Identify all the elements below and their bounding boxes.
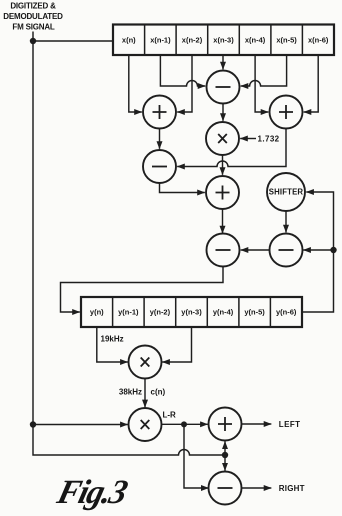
wire: x(n-5) tap to top subtractor with hop xyxy=(241,55,287,86)
wire: y(n) tap down to 19kHz multiplier xyxy=(97,327,128,362)
svg-text:y(n-4): y(n-4) xyxy=(213,308,234,317)
wire: left subtractor output to middle adder xyxy=(160,183,205,193)
wire: L+R up into output adder xyxy=(224,442,226,456)
wire: x(n-3) tap to top subtractor xyxy=(222,55,224,69)
node: FM input junction xyxy=(30,38,36,44)
adder U12: output adder (plus) xyxy=(209,408,242,441)
node: feedback junction on right bus xyxy=(330,247,336,253)
wire: top subtractor output to multiplier xyxy=(222,104,224,121)
subtractor U8: middle subtractor (minus) xyxy=(207,234,240,267)
adder U6: middle adder (plus) xyxy=(206,176,239,209)
svg-text:38kHz: 38kHz xyxy=(119,387,142,396)
wire: shifter output down to right subtractor xyxy=(285,211,287,232)
wire: FM bus into L-R multiplier xyxy=(33,424,128,426)
wire: RIGHT output xyxy=(242,487,272,489)
svg-text:19kHz: 19kHz xyxy=(101,334,124,343)
wire: FM signal left bus down to bottom with hop over L-R branch xyxy=(33,41,225,455)
svg-text:x(n-2): x(n-2) xyxy=(182,36,203,45)
svg-text:y(n-1): y(n-1) xyxy=(118,308,139,317)
wire: coefficient 1.732 into multiplier xyxy=(240,138,256,140)
register: x(n) shift register box xyxy=(113,25,334,56)
svg-text:x(n-3): x(n-3) xyxy=(213,36,234,45)
svg-text:y(n-5): y(n-5) xyxy=(244,308,265,317)
svg-text:1.732: 1.732 xyxy=(258,134,280,143)
wire: L-R branch down to output subtractor xyxy=(184,424,209,488)
register: y(n) shift register box xyxy=(81,297,302,327)
wire: left adder output down to left subtractor xyxy=(159,129,161,149)
svg-text:L-R: L-R xyxy=(163,411,177,420)
wire: x(n-6) tap to right adder xyxy=(304,55,319,112)
wire: y-register feedback loop up right side to shifter xyxy=(302,192,334,312)
svg-text:SHIFTER: SHIFTER xyxy=(269,188,304,197)
wire: 38kHz carrier c(n) down to L-R multiplier xyxy=(144,379,146,408)
wire: middle subtractor output to y-register input xyxy=(61,267,224,313)
svg-text:x(n-4): x(n-4) xyxy=(245,36,266,45)
label: DIGITIZED & DEMODULATED FM SIGNAL xyxy=(3,2,63,32)
x-register cell dividers xyxy=(145,25,303,56)
svg-text:y(n): y(n) xyxy=(90,308,104,317)
node: L+R junction between output adder and subtractor xyxy=(222,452,228,458)
adder U1: top subtractor (minus) xyxy=(207,71,240,104)
svg-text:y(n-6): y(n-6) xyxy=(276,308,297,317)
wire: right subtractor output to middle subtractor xyxy=(241,249,270,251)
wire: FM signal stub from label xyxy=(32,32,34,42)
subtractor U13: output subtractor (minus) xyxy=(209,472,242,505)
wire: x(n-2) tap to left adder xyxy=(177,55,192,112)
svg-text:c(n): c(n) xyxy=(151,387,166,396)
wire: right bus branch into right subtractor xyxy=(303,249,333,251)
wire: L+R down into output subtractor xyxy=(224,455,226,471)
svg-text:LEFT: LEFT xyxy=(279,420,301,429)
multiplier U11: L-R demodulator xyxy=(129,408,162,441)
subtractor U9: right subtractor (minus) xyxy=(270,234,303,267)
wire: right adder output to left subtractor with hop over multiplier output xyxy=(177,129,286,167)
svg-text:x(n-6): x(n-6) xyxy=(308,36,329,45)
svg-text:y(n-3): y(n-3) xyxy=(181,308,202,317)
wire: multiplier output down to middle adder xyxy=(222,155,224,175)
wire: middle adder output down to middle subtractor xyxy=(222,209,224,233)
svg-text:FM SIGNAL: FM SIGNAL xyxy=(12,23,55,32)
wire: L-R signal to output adder xyxy=(162,423,208,425)
wire: x(n-1) tap to top subtractor with hop xyxy=(160,55,205,86)
wire: x(n) tap to left adder xyxy=(129,55,142,112)
wire: FM junction to x-register input xyxy=(33,40,113,42)
wire: y(n-3) tap down to 19kHz multiplier xyxy=(162,327,191,362)
wire: x(n-4) tap to right adder xyxy=(255,55,268,112)
wire: LEFT output xyxy=(242,423,272,425)
shifter U7 xyxy=(267,173,305,211)
node: L-R junction xyxy=(181,421,187,427)
svg-text:x(n-1): x(n-1) xyxy=(150,36,171,45)
adder U3: right adder (plus) xyxy=(270,96,303,129)
svg-text:x(n): x(n) xyxy=(122,36,136,45)
adder U2: left adder (plus) xyxy=(143,96,176,129)
svg-text:DEMODULATED: DEMODULATED xyxy=(3,12,63,21)
svg-text:y(n-2): y(n-2) xyxy=(150,308,171,317)
svg-text:x(n-5): x(n-5) xyxy=(276,36,297,45)
figure caption Fig.3 xyxy=(53,473,132,510)
multiplier U4: x 1.732 xyxy=(206,122,239,155)
node: FM bus junction at L-R multiplier xyxy=(30,421,36,427)
y-register cell dividers xyxy=(113,297,271,327)
subtractor U5: left subtractor (minus) xyxy=(143,150,176,183)
svg-text:Fig.3: Fig.3 xyxy=(53,473,132,510)
svg-text:RIGHT: RIGHT xyxy=(279,484,305,493)
multiplier U10: 19kHz regenerator xyxy=(129,346,162,379)
svg-text:DIGITIZED &: DIGITIZED & xyxy=(10,2,56,11)
